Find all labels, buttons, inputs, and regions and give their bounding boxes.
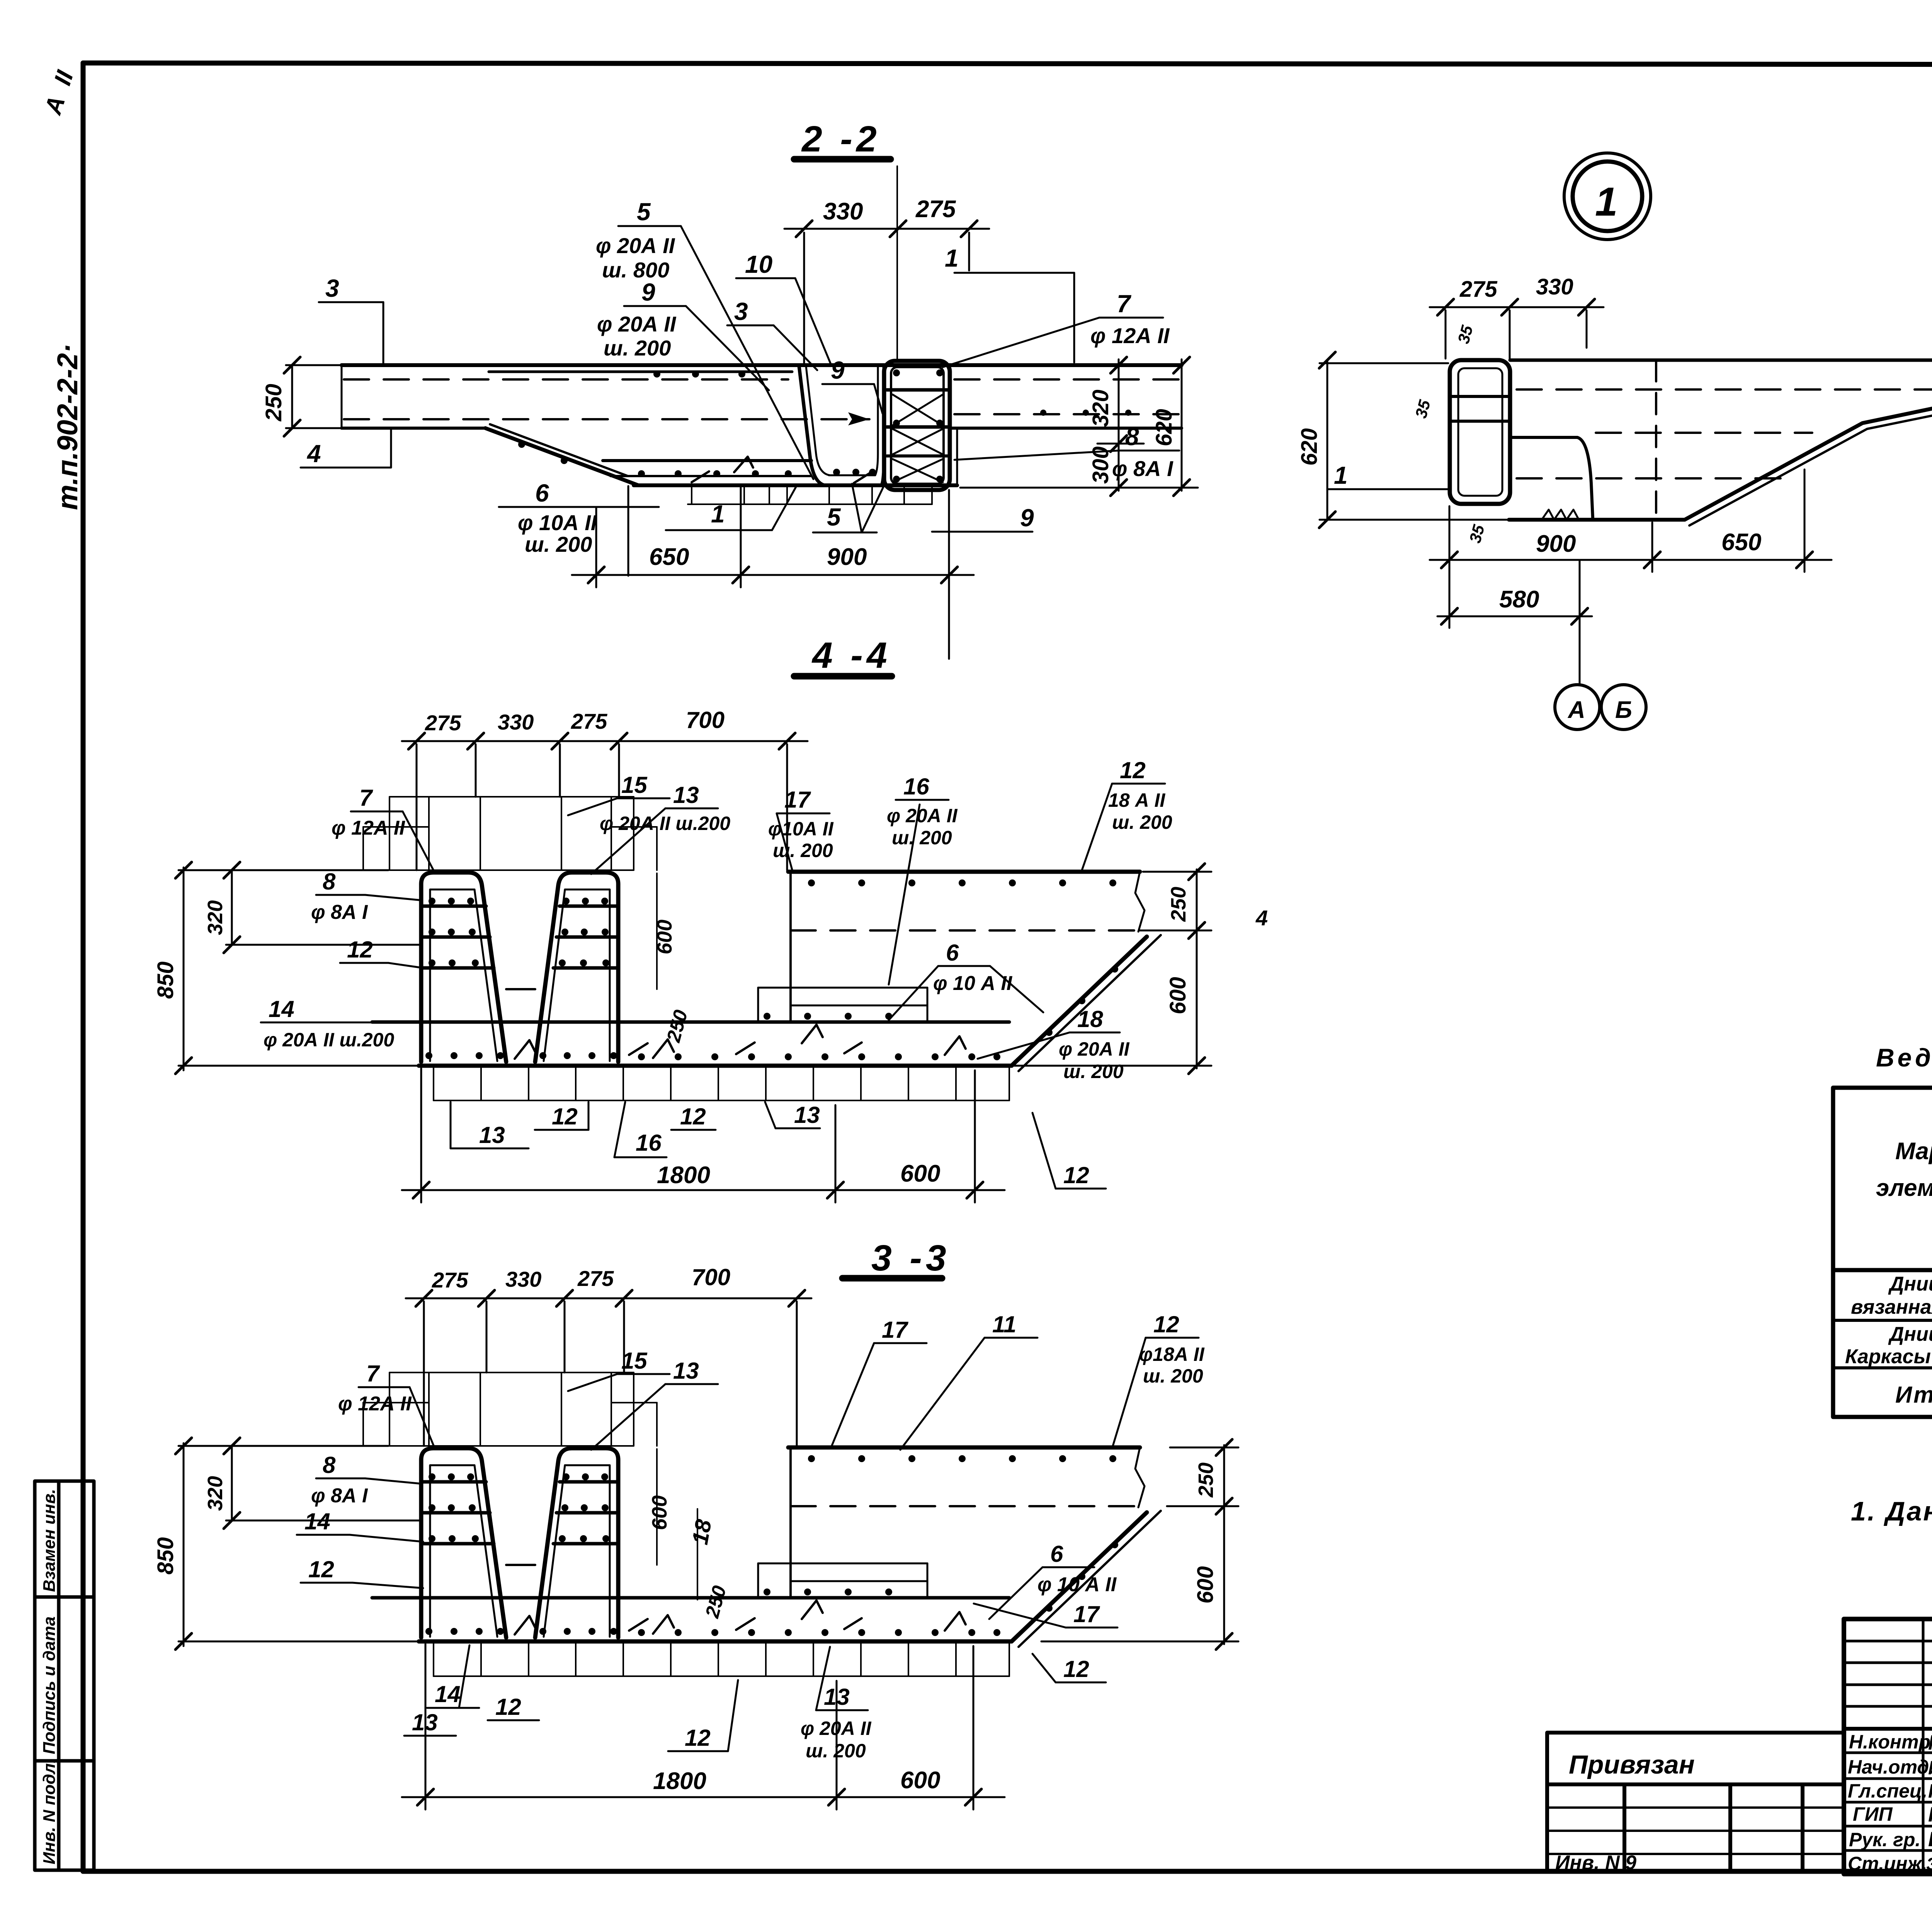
- svg-text:12: 12: [1063, 1656, 1089, 1682]
- svg-text:4 -4: 4 -4: [811, 635, 891, 676]
- svg-text:580: 580: [1499, 586, 1539, 613]
- section 2-2 floor top edge: [603, 459, 811, 462]
- svg-text:17: 17: [882, 1317, 908, 1343]
- svg-text:Крюков: Крюков: [1928, 1803, 1932, 1826]
- svg-text:φ 12А II: φ 12А II: [1090, 323, 1170, 348]
- svg-text:1800: 1800: [653, 1768, 706, 1794]
- svg-text:1: 1: [945, 244, 959, 272]
- svg-text:φ 8А I: φ 8А I: [311, 901, 368, 923]
- svg-text:330: 330: [823, 198, 863, 225]
- svg-text:Нач.отд.: Нач.отд.: [1848, 1756, 1932, 1778]
- section 2-2 edge beam x-hatch: [893, 395, 943, 482]
- floor slab: [419, 1064, 1012, 1068]
- svg-text:18: 18: [1077, 1006, 1103, 1032]
- svg-text:1: 1: [1334, 461, 1348, 489]
- svg-text:φ 10А II: φ 10А II: [518, 510, 597, 535]
- section 2-2 slab bottom edge left: [342, 427, 485, 430]
- svg-text:17: 17: [784, 787, 811, 813]
- svg-text:12: 12: [347, 937, 373, 963]
- svg-text:12: 12: [685, 1725, 711, 1751]
- svg-text:6: 6: [1050, 1541, 1063, 1567]
- svg-text:13: 13: [794, 1102, 820, 1128]
- svg-text:620: 620: [1297, 428, 1322, 466]
- right wall column: [535, 872, 618, 1062]
- svg-text:320: 320: [204, 900, 227, 935]
- svg-text:600: 600: [1165, 977, 1190, 1014]
- svg-text:Ст.инж.: Ст.инж.: [1848, 1853, 1927, 1874]
- section 2-2 dashed rebar top: [344, 378, 788, 381]
- svg-text:275: 275: [425, 711, 461, 735]
- node dim 620 left: [1319, 352, 1507, 528]
- svg-text:3: 3: [734, 298, 748, 325]
- svg-text:Руссин: Руссин: [1928, 1780, 1932, 1802]
- section 2-2 ramp rebar: [490, 424, 628, 476]
- svg-text:φ 10 А II: φ 10 А II: [1037, 1573, 1117, 1596]
- svg-text:11: 11: [992, 1311, 1016, 1337]
- node weld marks: [1542, 510, 1579, 520]
- svg-text:Ведомость расхода стали на: Ведомость расхода стали на элемент, кг: [1876, 1043, 1932, 1072]
- svg-text:Мильцер: Мильцер: [1928, 1731, 1932, 1754]
- steel table data rows: [1845, 1273, 1932, 1408]
- title block signer labels: [1848, 1731, 1932, 1874]
- svg-text:ш. 200: ш. 200: [773, 840, 833, 861]
- svg-text:1. Данный лист читать совме: 1. Данный лист читать совместно с листом…: [1851, 1496, 1932, 1526]
- section 2-2 under-floor comb: [688, 487, 932, 504]
- svg-text:3 -3: 3 -3: [871, 1238, 950, 1279]
- svg-text:8: 8: [323, 1452, 336, 1478]
- svg-text:275: 275: [1459, 277, 1498, 302]
- svg-text:15: 15: [621, 1348, 648, 1374]
- svg-text:ш. 800: ш. 800: [602, 258, 669, 282]
- svg-text:620: 620: [1151, 409, 1177, 446]
- svg-text:Привязан: Привязан: [1569, 1750, 1695, 1779]
- section 2-2 slab bottom edge right: [951, 427, 1182, 430]
- svg-text:330: 330: [498, 710, 534, 734]
- svg-text:14: 14: [435, 1681, 461, 1707]
- svg-text:ш. 200: ш. 200: [806, 1740, 866, 1762]
- svg-text:13: 13: [673, 782, 699, 808]
- svg-text:Днище.: Днище.: [1888, 1323, 1932, 1345]
- section 2-2 sump left wall: [799, 366, 825, 485]
- svg-text:φ18А II: φ18А II: [1139, 1344, 1205, 1365]
- title block outer: [1844, 1619, 1932, 1874]
- node axis to section circles: [1579, 560, 1581, 683]
- svg-text:650: 650: [1721, 529, 1761, 556]
- margin inventory strip table: [35, 1481, 94, 1870]
- section 2-2 slab left end: [341, 365, 343, 428]
- formwork thin outline: [363, 797, 657, 870]
- svg-text:ш. 200: ш. 200: [1143, 1365, 1203, 1387]
- svg-text:ш. 200: ш. 200: [892, 827, 952, 849]
- svg-text:17: 17: [1073, 1601, 1100, 1627]
- section 4-4 top dims 275/330/275/700: [402, 733, 808, 870]
- svg-text:ш. 200: ш. 200: [1063, 1061, 1124, 1082]
- steel table header text: [1876, 1097, 1932, 1264]
- svg-text:Каркасы и сетки: Каркасы и сетки: [1845, 1345, 1932, 1368]
- node slab top edge: [1510, 359, 1932, 362]
- svg-text:250: 250: [261, 384, 286, 422]
- svg-text:2 -2: 2 -2: [801, 119, 881, 160]
- svg-text:300: 300: [1088, 446, 1113, 484]
- section 4-4 bottom dims 1800/600: [402, 1068, 1005, 1202]
- section 2-2 edge beam column: [884, 361, 950, 490]
- svg-text:320: 320: [204, 1476, 227, 1511]
- svg-text:Б: Б: [1615, 697, 1632, 723]
- svg-text:Марка: Марка: [1895, 1138, 1932, 1165]
- svg-text:1: 1: [1595, 179, 1617, 224]
- svg-text:7: 7: [366, 1361, 380, 1386]
- svg-text:320: 320: [1088, 389, 1113, 427]
- svg-text:14: 14: [304, 1509, 330, 1534]
- node sump floor: [1509, 518, 1685, 522]
- section 3-3 top dims 275/330/275/700: [406, 1290, 811, 1446]
- section 2-2 tank floor bottom: [634, 483, 957, 487]
- section 2-2 dashed rebar bottom with arrow: [344, 418, 869, 420]
- section 3-3 dim 320 left: [224, 1438, 420, 1529]
- svg-text:φ 20А II: φ 20А II: [597, 312, 677, 336]
- svg-text:330: 330: [1536, 274, 1573, 299]
- svg-text:650: 650: [649, 544, 689, 570]
- node dims 275/330 top: [1430, 299, 1604, 359]
- node circle A: [1555, 685, 1600, 730]
- svg-text:13: 13: [824, 1684, 850, 1710]
- svg-text:18 А II: 18 А II: [1108, 789, 1165, 811]
- svg-text:т.п.902-2-2·: т.п.902-2-2·: [51, 344, 83, 510]
- svg-text:ш. 200: ш. 200: [604, 336, 671, 360]
- svg-text:275: 275: [915, 196, 956, 223]
- under-floor grid: [434, 1100, 1009, 1101]
- section 4-4 right dims 250/600: [1014, 864, 1211, 1074]
- svg-text:275: 275: [571, 709, 607, 733]
- svg-text:600: 600: [900, 1767, 940, 1794]
- svg-text:1800: 1800: [657, 1162, 710, 1189]
- svg-text:900: 900: [1536, 531, 1576, 557]
- svg-text:250: 250: [1167, 887, 1190, 922]
- svg-text:элемента: элемента: [1876, 1175, 1932, 1201]
- svg-text:850: 850: [153, 1537, 178, 1575]
- section 4-4 dim 320 left: [224, 862, 420, 953]
- svg-text:φ 20А II: φ 20А II: [887, 805, 958, 827]
- svg-text:12: 12: [495, 1694, 521, 1720]
- svg-text:4: 4: [1255, 906, 1268, 930]
- svg-text:Н.контр: Н.контр: [1849, 1731, 1930, 1753]
- section 2-2 ramp outer: [485, 428, 638, 485]
- svg-text:Инв. N подл.: Инв. N подл.: [40, 1759, 59, 1864]
- svg-text:12: 12: [680, 1104, 706, 1129]
- node sump ledge: [1510, 436, 1577, 439]
- section 2-2 right dims 320/300/620: [960, 357, 1198, 496]
- svg-text:9: 9: [831, 356, 845, 384]
- svg-text:12: 12: [1063, 1162, 1089, 1188]
- svg-text:φ 20А II ш.200: φ 20А II ш.200: [264, 1029, 394, 1051]
- svg-text:15: 15: [621, 772, 648, 798]
- svg-text:600: 600: [648, 1495, 671, 1530]
- section 2-2 sump right wall: [882, 367, 884, 485]
- section 2-2 right band dots: [1040, 410, 1131, 416]
- svg-text:1: 1: [711, 500, 725, 528]
- svg-text:9: 9: [1020, 504, 1034, 532]
- svg-text:вязанная ар-ра: вязанная ар-ра: [1851, 1296, 1932, 1318]
- section 2-2 dim 330/275 top: [784, 221, 989, 363]
- svg-text:А: А: [1567, 697, 1585, 723]
- svg-text:φ 20А II ш.200: φ 20А II ш.200: [600, 813, 730, 834]
- svg-text:600: 600: [900, 1160, 940, 1187]
- section 2-2 cut axis: [896, 166, 898, 359]
- svg-text:12: 12: [552, 1104, 578, 1129]
- section 3-3 dim 850 left: [175, 1438, 417, 1650]
- svg-text:φ 12А II: φ 12А II: [332, 817, 405, 839]
- privyazan block: [1547, 1733, 1844, 1872]
- node bottom dims 900/650: [1430, 469, 1832, 628]
- node cut dashed line: [1655, 360, 1657, 520]
- svg-text:φ 8А I: φ 8А I: [311, 1485, 368, 1507]
- wall rebar dots: [425, 879, 1118, 1060]
- svg-text:ш. 200: ш. 200: [525, 532, 592, 556]
- svg-text:4: 4: [306, 440, 321, 468]
- svg-text:600: 600: [1193, 1566, 1218, 1604]
- svg-text:850: 850: [153, 961, 178, 999]
- node wall column: [1450, 360, 1510, 504]
- trench outline: [758, 988, 927, 1022]
- svg-text:700: 700: [692, 1264, 730, 1290]
- node small 35 dims: [1412, 323, 1932, 545]
- section 3-3 bottom dims 1800/600: [402, 1644, 1005, 1810]
- section 3-3 right dims 250/600: [1041, 1439, 1238, 1650]
- svg-text:φ 20А II: φ 20А II: [801, 1718, 872, 1739]
- svg-text:700: 700: [686, 707, 724, 733]
- node dashed rebars: [1517, 388, 1932, 391]
- svg-text:6: 6: [535, 479, 549, 507]
- svg-text:10: 10: [745, 250, 772, 278]
- svg-text:12: 12: [1120, 757, 1146, 783]
- svg-text:13: 13: [479, 1122, 505, 1148]
- svg-text:330: 330: [505, 1267, 541, 1291]
- node ramp: [1685, 398, 1932, 520]
- section 2-2 bottom dims 650/900: [572, 488, 974, 587]
- svg-text:9: 9: [641, 278, 655, 306]
- svg-text:5: 5: [827, 503, 841, 531]
- svg-text:13: 13: [412, 1709, 438, 1735]
- svg-text:φ 20А II: φ 20А II: [596, 233, 675, 258]
- svg-text:18: 18: [687, 1517, 716, 1547]
- svg-text:Зволинская: Зволинская: [1926, 1854, 1932, 1874]
- svg-text:13: 13: [673, 1358, 699, 1384]
- section 2-2 rebar dots floor: [518, 369, 943, 483]
- svg-text:Подпись и дата: Подпись и дата: [40, 1616, 59, 1754]
- section 2-2 sump floor: [823, 484, 882, 487]
- section 2-2 slab top edge: [342, 363, 1182, 367]
- ramp: [1012, 937, 1147, 1066]
- svg-text:Днище.: Днище.: [1888, 1273, 1932, 1295]
- svg-text:Мешалкин: Мешалкин: [1928, 1757, 1932, 1779]
- svg-text:Гл.спец.: Гл.спец.: [1848, 1780, 1927, 1802]
- title block revision grid: [1844, 1619, 1932, 1874]
- svg-text:275: 275: [432, 1268, 468, 1292]
- node circle B: [1601, 685, 1646, 730]
- svg-text:φ 8А I: φ 8А I: [1112, 456, 1173, 481]
- left wall column: [421, 872, 506, 1062]
- section 2-2 top rebar line: [489, 371, 792, 373]
- svg-text:φ 12А II: φ 12А II: [338, 1393, 412, 1415]
- steel consumption table grid: [1833, 1088, 1932, 1417]
- node dim 580: [1437, 608, 1592, 624]
- svg-text:275: 275: [577, 1266, 614, 1291]
- notch between walls: [506, 988, 535, 990]
- svg-text:8: 8: [323, 869, 336, 895]
- svg-text:ш. 200: ш. 200: [1112, 811, 1172, 833]
- svg-text:7: 7: [359, 785, 373, 811]
- svg-text:Болотова: Болотова: [1928, 1828, 1932, 1851]
- svg-text:14: 14: [269, 996, 294, 1022]
- svg-text:ГИП: ГИП: [1853, 1803, 1893, 1825]
- svg-text:Рук. гр.: Рук. гр.: [1849, 1829, 1920, 1850]
- svg-text:φ 20А II: φ 20А II: [1059, 1038, 1130, 1060]
- svg-text:Инв. N 9: Инв. N 9: [1555, 1852, 1636, 1874]
- svg-text:Взамен инв.: Взамен инв.: [40, 1489, 59, 1592]
- svg-text:6: 6: [946, 940, 959, 966]
- section 2-2 floor rebar line: [611, 475, 811, 477]
- right slab: [788, 870, 1140, 874]
- svg-text:12: 12: [1153, 1311, 1179, 1337]
- svg-text:16: 16: [903, 774, 929, 799]
- svg-text:Итого:: Итого:: [1895, 1382, 1932, 1408]
- channel wall under slab: [789, 872, 792, 1022]
- section 2-2 dim 250 left: [284, 357, 344, 436]
- svg-text:3: 3: [325, 274, 339, 302]
- section 4-4 dim 850 left: [175, 862, 417, 1074]
- svg-text:12: 12: [308, 1556, 334, 1582]
- node 1 bubble: [1564, 153, 1651, 240]
- svg-text:16: 16: [636, 1130, 662, 1156]
- svg-text:900: 900: [827, 544, 867, 570]
- hook marks on floor: [515, 1025, 966, 1059]
- svg-text:7: 7: [1117, 290, 1132, 318]
- svg-text:5: 5: [637, 198, 651, 226]
- svg-text:250: 250: [1194, 1463, 1218, 1498]
- section 2-2 hook marks: [692, 457, 869, 483]
